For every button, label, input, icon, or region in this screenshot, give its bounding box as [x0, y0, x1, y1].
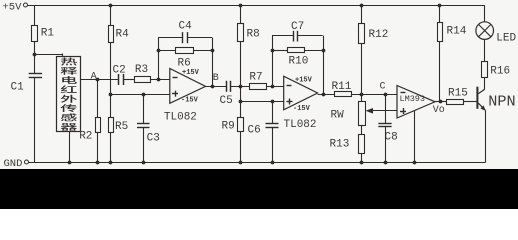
wire R3 to op-amp1 inverting input	[151, 79, 170, 81]
wire C4 loop top	[158, 37, 182, 39]
svg-text:GND: GND	[4, 158, 23, 170]
svg-text:R6: R6	[178, 58, 191, 70]
wire C3 to GND	[143, 127, 145, 162]
svg-text:R10: R10	[289, 56, 309, 68]
svg-text:R2: R2	[79, 131, 92, 143]
wire R7 to op-amp2 inverting input	[267, 86, 284, 88]
svg-text:RW: RW	[331, 110, 345, 122]
wire loop2 right vertical	[323, 36, 325, 94]
wire LM393 output	[435, 101, 447, 103]
wire R11 to node C	[352, 94, 398, 96]
svg-text:+15V: +15V	[295, 77, 313, 85]
resistor R7	[250, 84, 267, 90]
resistor R6	[158, 50, 175, 52]
resistor R16	[482, 62, 488, 78]
svg-text:+5V: +5V	[3, 2, 23, 14]
wire C6 to GND	[272, 128, 274, 162]
svg-text:R11: R11	[332, 81, 352, 93]
svg-text:R3: R3	[135, 64, 148, 76]
op-amp U1 TL082	[170, 69, 206, 104]
wire bias to op-amp2 non-inverting input	[241, 101, 284, 103]
wire sensor to GND	[69, 131, 71, 162]
capacitor C1	[29, 73, 42, 75]
svg-text:NPN: NPN	[488, 92, 515, 110]
svg-text:R15: R15	[448, 88, 468, 100]
wire loop1 right vertical	[212, 38, 214, 87]
svg-text:-15V: -15V	[181, 97, 199, 105]
wire C7 loop top	[272, 35, 293, 37]
wire emitter to GND	[485, 110, 487, 162]
svg-text:C4: C4	[179, 21, 193, 33]
svg-text:R13: R13	[330, 139, 350, 151]
svg-text:R9: R9	[222, 121, 235, 133]
wire op-amp1 output node B	[206, 86, 227, 88]
resistor R1	[34, 5, 36, 25]
wire top rail corner to LED	[484, 5, 486, 22]
svg-text:C1: C1	[11, 82, 25, 94]
wire C1 to GND	[34, 78, 36, 163]
wire C8 to GND	[385, 127, 387, 162]
capacitor C8	[385, 94, 387, 123]
svg-text:R7: R7	[249, 72, 262, 84]
svg-text:R8: R8	[247, 29, 260, 41]
potentiometer RW wiper arrow	[372, 110, 398, 112]
svg-text:TL082: TL082	[284, 119, 317, 131]
resistor R8	[240, 5, 242, 24]
wire C5 to R7	[231, 86, 250, 88]
wire RW to R13	[361, 125, 363, 135]
wire LED to R16	[484, 39, 486, 61]
capacitor C2	[118, 74, 120, 85]
svg-text:R12: R12	[369, 29, 389, 41]
resistor R9	[238, 118, 244, 132]
resistor R13	[359, 135, 365, 154]
svg-text:C6: C6	[248, 125, 261, 137]
wire sensor output to node A	[81, 79, 118, 81]
junction GND rail dots	[68, 161, 72, 165]
resistor R10	[272, 50, 287, 52]
svg-text:TL082: TL082	[164, 111, 197, 123]
capacitor C3	[143, 94, 145, 123]
op-amp U2 TL082	[284, 76, 318, 110]
resistor R3	[135, 77, 151, 83]
comparator U3 LM393	[397, 86, 435, 119]
wire R16 to collector	[484, 77, 486, 90]
svg-text:C8: C8	[385, 132, 398, 144]
wire R14 to output node	[439, 41, 441, 102]
svg-text:-15V: -15V	[293, 105, 311, 113]
wire R13 to GND	[361, 154, 363, 162]
wire R12 down to RW	[361, 44, 363, 102]
svg-text:B: B	[213, 73, 219, 84]
wire divider to op-amp1 non-inverting input	[111, 94, 170, 96]
potentiometer RW	[359, 102, 366, 126]
svg-text:R5: R5	[115, 121, 128, 133]
wire R1 to C1	[34, 42, 36, 74]
svg-text:+15V: +15V	[182, 69, 200, 77]
resistor R2	[97, 80, 99, 118]
svg-text:R1: R1	[41, 28, 55, 40]
wire LM393 ground pin	[414, 111, 416, 162]
resistor R12	[361, 5, 363, 24]
svg-text:R14: R14	[447, 26, 467, 38]
svg-text:R16: R16	[490, 66, 510, 78]
capacitor C5	[226, 81, 228, 92]
resistor R11	[335, 92, 352, 97]
svg-text:Vo: Vo	[433, 105, 445, 116]
wire R8 to bias node	[240, 42, 242, 118]
wire R9 to GND	[240, 132, 242, 163]
svg-text:LM393: LM393	[400, 94, 426, 104]
wire R15 to transistor base	[463, 101, 476, 103]
resistor R5	[109, 118, 114, 133]
svg-text:C2: C2	[113, 64, 126, 76]
transistor Q1 NPN	[476, 87, 478, 109]
wire +5V top rail	[28, 5, 485, 7]
capacitor C6	[272, 101, 274, 123]
wire loop2 left vertical	[272, 36, 274, 87]
wire op-amp2 output to R11	[318, 94, 335, 96]
wire C2 to R3	[123, 79, 134, 81]
sensor U-pyro box 热释电红外传感器	[57, 57, 81, 132]
svg-text:R4: R4	[116, 29, 130, 41]
black strip at bottom (scan artifact)	[0, 169, 518, 209]
wire GND bottom rail	[29, 162, 486, 164]
wire R4 to R5	[110, 42, 112, 117]
lamp LED	[476, 22, 494, 40]
wire loop1 left vertical	[158, 38, 160, 80]
svg-text:C3: C3	[147, 133, 160, 145]
resistor R4	[110, 5, 112, 25]
svg-text:C: C	[380, 82, 386, 93]
wire R2 to GND	[97, 133, 99, 163]
wire R5 to GND	[110, 133, 112, 163]
svg-text:LED: LED	[496, 33, 516, 45]
resistor R15	[447, 100, 464, 105]
resistor R14	[439, 5, 441, 23]
svg-text:A: A	[91, 71, 97, 82]
svg-text:C5: C5	[220, 95, 233, 107]
junction top rail dots	[109, 4, 113, 8]
wire supply to sensor	[35, 54, 63, 56]
